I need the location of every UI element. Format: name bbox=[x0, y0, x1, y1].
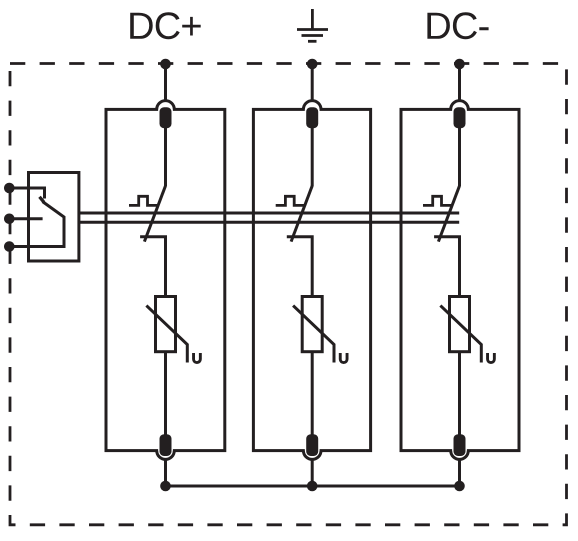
disconnector fixed contact 3 and wire to varistor bbox=[434, 237, 459, 297]
disconnector fixed contact 2 and wire to varistor bbox=[287, 237, 312, 297]
wire varistor 1 to bottom plug bbox=[164, 352, 167, 435]
wire module 1 plug to disconnector bbox=[164, 128, 167, 187]
wire varistor 2 to bottom plug bbox=[311, 352, 314, 435]
module 2 bottom edge gap bbox=[305, 449, 320, 453]
wire module 3 plug to disconnector bbox=[458, 128, 461, 187]
varistor 1 strike line bbox=[146, 306, 187, 363]
remote contact stub of terminal 2 bbox=[9, 217, 43, 220]
wire earth terminal to module 2 bbox=[311, 64, 314, 101]
node DC- terminal bbox=[454, 59, 465, 70]
wire module 2 plug to disconnector bbox=[311, 128, 314, 187]
module 2 bottom plug arc bbox=[303, 451, 321, 460]
remote contact wire from terminal 1 bbox=[9, 188, 45, 199]
thermal trip indicator 1 bbox=[129, 196, 159, 205]
remote signalling contact box bbox=[29, 173, 79, 262]
varistor 2 body bbox=[302, 297, 322, 352]
module 2 top edge gap bbox=[305, 107, 320, 111]
module 2 top plug contact bbox=[306, 107, 318, 128]
remote terminal node 1 bbox=[4, 183, 15, 194]
disconnector blade 3 bbox=[438, 186, 459, 242]
disconnector fixed contact 1 and wire to varistor bbox=[140, 237, 165, 297]
thermal trip indicator 2 bbox=[276, 196, 306, 205]
disconnector blade 2 bbox=[291, 186, 312, 242]
remote contact pivot tick bbox=[40, 197, 45, 203]
varistor 2 strike line bbox=[293, 306, 334, 363]
mechanical linkage double line lower bbox=[78, 221, 460, 224]
module 1 top edge gap bbox=[158, 107, 173, 111]
wire DC+ terminal to module 1 bbox=[164, 64, 167, 101]
wire module 1 to bottom bus bbox=[164, 459, 167, 486]
module 1 box (DC+ arrester) bbox=[106, 109, 225, 450]
bottom common bus wire bbox=[166, 485, 460, 488]
wire DC- terminal to module 3 bbox=[458, 64, 461, 101]
varistor 1 U label bbox=[194, 353, 201, 363]
node earth terminal bbox=[307, 59, 318, 70]
varistor 3 body bbox=[450, 297, 470, 352]
module 3 bottom plug arc bbox=[451, 451, 469, 460]
remote contact changeover blade and wire to terminal 3 bbox=[9, 202, 64, 247]
module 3 bottom edge gap bbox=[452, 449, 467, 453]
varistor 3 U label bbox=[488, 353, 495, 363]
module 3 top edge gap bbox=[452, 107, 467, 111]
mechanical linkage double line upper bbox=[78, 212, 460, 215]
varistor 1 body bbox=[156, 297, 176, 352]
label DC- bbox=[427, 12, 488, 39]
module 1 bottom edge gap bbox=[158, 449, 173, 453]
wire varistor 3 to bottom plug bbox=[458, 352, 461, 435]
varistor 2 U label bbox=[340, 353, 347, 363]
label DC+ bbox=[130, 12, 201, 39]
wire module 3 to bottom bus bbox=[458, 459, 461, 486]
node bottom bus branch 1 bbox=[160, 481, 171, 492]
module 1 bottom plug arc bbox=[157, 451, 175, 460]
module 1 top plug arc bbox=[157, 101, 175, 110]
thermal trip indicator 3 bbox=[423, 196, 453, 205]
module 2 box (earth arrester) bbox=[253, 109, 370, 450]
module 2 bottom plug contact bbox=[306, 434, 318, 456]
node bottom bus branch 2 bbox=[307, 481, 318, 492]
ground symbol (earth terminal above middle branch) bbox=[297, 9, 328, 41]
node DC+ terminal bbox=[160, 59, 171, 70]
remote terminal node 2 bbox=[4, 214, 15, 225]
module 3 box (DC- arrester) bbox=[401, 109, 519, 450]
disconnector blade 1 bbox=[144, 186, 165, 242]
node bottom bus branch 3 bbox=[454, 481, 465, 492]
remote terminal node 3 bbox=[4, 241, 15, 252]
wire module 2 to bottom bus bbox=[311, 459, 314, 486]
module 1 bottom plug contact bbox=[160, 434, 172, 456]
module 1 top plug contact bbox=[160, 107, 172, 128]
module 3 top plug contact bbox=[454, 107, 466, 128]
varistor 3 strike line bbox=[440, 306, 481, 363]
module 3 top plug arc bbox=[451, 101, 469, 110]
module 2 top plug arc bbox=[303, 101, 321, 110]
module 3 bottom plug contact bbox=[454, 434, 466, 456]
